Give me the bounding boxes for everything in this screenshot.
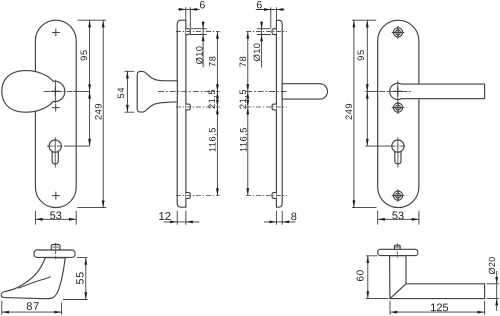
knob rose cap top view [34, 250, 75, 257]
dim 12 line [164, 221, 200, 223]
extension line axis [73, 90, 90, 92]
dim line A O10 [261, 21, 263, 67]
dim line B 78/21.5/116.5 [247, 32, 249, 196]
lever grip side [282, 84, 327, 99]
svg-text:60: 60 [356, 269, 367, 281]
knob screw head [51, 245, 60, 251]
extension line keyhole [64, 145, 90, 147]
svg-text:125: 125 [430, 302, 448, 314]
plate bar side [177, 20, 186, 207]
keyhole cylinder [49, 140, 61, 152]
screw boss middle [186, 104, 190, 110]
arrows fig5 [84, 258, 87, 265]
screw bottom [392, 190, 404, 202]
dim line B 78/21.5/116.5 [216, 32, 218, 196]
svg-text:249: 249 [93, 103, 103, 120]
dim line A O10 [202, 21, 204, 67]
svg-text:54: 54 [116, 87, 126, 99]
screw middle [392, 102, 404, 114]
dim 125 line [390, 311, 485, 313]
spindle cross [51, 87, 60, 95]
extension line keyhole [365, 145, 390, 147]
dim 12 ext [177, 211, 186, 225]
screw top [392, 27, 404, 39]
53 extension lines [378, 211, 419, 225]
dim 60 line [367, 256, 369, 299]
svg-text:6: 6 [199, 0, 205, 11]
FIG4 dimensions [352, 20, 419, 224]
dim 87 ext [2, 301, 62, 315]
extension line bottom [77, 207, 106, 209]
svg-text:21,5: 21,5 [207, 89, 217, 109]
dim O10 ext [257, 29, 271, 35]
keyhole cylinder [392, 140, 404, 152]
screw boss middle [272, 104, 276, 110]
lever bar [401, 84, 484, 99]
svg-text:78: 78 [207, 55, 217, 67]
dim 6 top [256, 9, 285, 11]
FIG3 centerlines [246, 32, 287, 196]
FIG5 dimensions [2, 258, 88, 315]
svg-text:95: 95 [356, 49, 366, 61]
svg-text:Ø10: Ø10 [252, 43, 262, 62]
extension line axis [365, 90, 378, 92]
svg-text:8: 8 [291, 211, 297, 223]
neck vertical centerline [54, 80, 56, 103]
screw boss top [186, 29, 190, 35]
dim 54 line [126, 71, 128, 112]
dim 54 ext [125, 71, 135, 112]
extension line top [352, 19, 376, 21]
rose circle [390, 83, 406, 99]
svg-text:249: 249 [344, 103, 354, 120]
dim 6 top [178, 8, 200, 10]
FIG2 centerlines [158, 32, 220, 196]
extension line bottom [352, 207, 376, 209]
svg-text:53: 53 [50, 210, 62, 222]
lever screw centerline [396, 244, 398, 259]
svg-text:116,5: 116,5 [208, 127, 218, 152]
arrows fig6 [366, 256, 369, 263]
arrows fig2 [179, 8, 186, 11]
FIG3 lever plate side view [272, 20, 328, 207]
arrows fig3 [264, 8, 271, 11]
svg-text:55: 55 [75, 271, 87, 284]
FIG6 lever top view [378, 245, 485, 298]
dim 55 line [85, 258, 87, 300]
svg-text:87: 87 [26, 301, 40, 313]
lever stem and bar top view [390, 256, 485, 299]
screw mark top (cross) [52, 29, 59, 36]
svg-text:95: 95 [79, 49, 89, 61]
53 dim line [35, 218, 76, 220]
dim 60 ext [366, 256, 389, 299]
extension line top [78, 19, 107, 21]
dim 125 ext [390, 301, 485, 315]
svg-text:12: 12 [158, 211, 171, 223]
knob side silhouette (cap + taper neck) [137, 71, 177, 112]
knob screw centerline [55, 243, 57, 260]
rose crosshair [380, 81, 411, 103]
53 dim line [378, 218, 419, 220]
screw mark bottom (cross) [52, 192, 59, 199]
FIG6 dimensions [366, 256, 499, 315]
FIG4 lever backplate front view [378, 20, 485, 207]
plate bar side [276, 20, 282, 207]
lever screw head [394, 245, 400, 249]
dim O10 ext [190, 29, 206, 35]
lever rose cap top view [378, 249, 418, 255]
FIG1 dimensions [35, 20, 106, 224]
dim O20 line [496, 271, 498, 311]
miter seam [390, 284, 406, 299]
svg-text:53: 53 [392, 210, 404, 222]
screw boss bottom [272, 193, 276, 199]
screw boss top [272, 29, 276, 35]
FIG2 knob plate side view [137, 20, 190, 207]
svg-text:Ø10: Ø10 [194, 46, 204, 65]
arrows fig4 [366, 20, 369, 27]
dim 87 line [2, 311, 62, 313]
plate P2 [378, 20, 419, 207]
knob grip with neck (union silhouette) [2, 71, 65, 113]
FIG2 dimensions [125, 7, 218, 225]
dim line 249 [353, 20, 355, 207]
plate P1 [35, 20, 76, 207]
screw boss bottom [186, 193, 190, 199]
53 extension lines [35, 211, 76, 225]
svg-text:Ø20: Ø20 [487, 256, 497, 274]
dim O20 ext [487, 284, 499, 299]
knob grip top view [1, 258, 65, 299]
dim line 95/72 [366, 20, 368, 146]
FIG5 knob top view [1, 245, 75, 299]
dim 8 line [264, 221, 296, 223]
FIG3 dimensions [248, 7, 296, 224]
dim 8 ext [276, 211, 282, 225]
screw mark below knob (cross) [52, 104, 59, 111]
svg-text:6: 6 [256, 0, 262, 11]
dim line 95/72 [89, 20, 91, 146]
dim line 249 [102, 20, 104, 207]
dim 55 ext [63, 258, 87, 300]
svg-text:78: 78 [238, 55, 248, 67]
knob centerline [44, 90, 72, 92]
arrows fig1 [88, 20, 91, 27]
svg-text:116,5: 116,5 [239, 127, 249, 152]
grip crease line [19, 277, 51, 288]
svg-text:21,5: 21,5 [238, 89, 248, 109]
